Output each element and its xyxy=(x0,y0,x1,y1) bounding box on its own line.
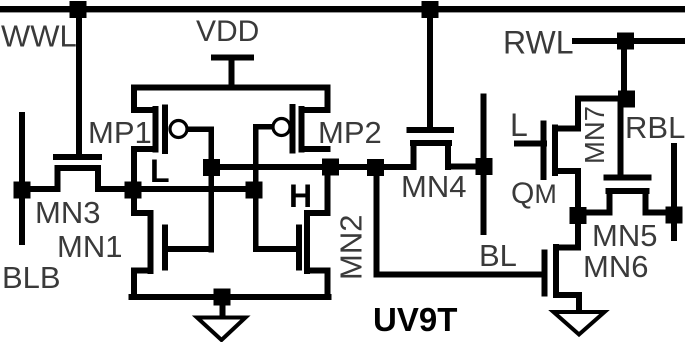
MN6 drain jog xyxy=(553,245,581,251)
ground stub (latch) xyxy=(220,297,226,318)
transistor MP1 xyxy=(131,85,187,193)
MN5 channel bar xyxy=(606,188,650,194)
junction ground row xyxy=(214,289,231,306)
junction node L / MP2 gate xyxy=(246,182,263,199)
MN6 gate bar xyxy=(542,250,548,297)
MN2 source jog xyxy=(304,268,331,274)
MP2 source vertical xyxy=(325,85,331,114)
MN5 gate bar xyxy=(604,175,652,181)
svg-text:QM: QM xyxy=(511,177,557,210)
MN4 channel bar xyxy=(410,140,452,146)
MN7 drain vertical up xyxy=(575,96,581,129)
svg-text:L: L xyxy=(510,107,528,143)
svg-text:MP2: MP2 xyxy=(318,115,382,150)
MN1 drain jog xyxy=(131,210,154,216)
svg-text:L: L xyxy=(150,153,170,189)
MN3 drain stub xyxy=(95,165,101,192)
MN4 drain arm to BL xyxy=(445,164,484,170)
MN7 channel bar xyxy=(552,125,558,177)
svg-text:MN1: MN1 xyxy=(57,229,122,264)
junction RBL / MN5 xyxy=(666,207,683,224)
MP2 channel bar xyxy=(299,106,305,153)
wire RBL bitline xyxy=(671,143,677,241)
wire BL bitline xyxy=(481,94,487,236)
transistor MN1 xyxy=(131,186,212,300)
MN6 channel bar xyxy=(553,244,559,294)
MN5 source stub xyxy=(607,188,613,216)
MP1 drain jog xyxy=(131,146,159,152)
svg-text:WWL: WWL xyxy=(1,19,77,54)
svg-text:VDD: VDD xyxy=(196,15,259,48)
MP1 channel bar xyxy=(153,106,159,153)
terminal node L to MN7 gate xyxy=(514,141,547,147)
svg-text:MN7: MN7 xyxy=(579,106,610,164)
wire WWL top rail xyxy=(0,6,685,12)
MN4 source arm to node H xyxy=(376,164,414,170)
ground symbol (MN6) xyxy=(554,312,605,335)
MN1 drain vertical xyxy=(131,186,137,216)
svg-text:BLB: BLB xyxy=(2,260,61,295)
MN2 source vertical xyxy=(325,268,331,301)
MN4 source stub xyxy=(411,140,417,170)
MN7 drain horizontal to RWL junction xyxy=(575,96,627,102)
MN3 channel bar xyxy=(55,165,101,171)
MP1 source vertical xyxy=(131,85,137,114)
svg-text:MN4: MN4 xyxy=(401,169,466,204)
wire MP2 gate to node L (horizontal) xyxy=(253,124,273,130)
wire RWL drop xyxy=(621,41,627,99)
wire node H drop to MN6 gate (vertical) xyxy=(374,164,380,278)
MN7 gate bar xyxy=(541,121,547,181)
MN4 drain stub xyxy=(445,140,451,170)
MP2 gate bar xyxy=(290,104,296,154)
power VDD stub xyxy=(229,57,235,88)
MN4 gate drop from WWL rail xyxy=(427,9,433,130)
MN6 drain vertical xyxy=(575,215,581,251)
wire MP2 gate drop to L row and MN2 gate xyxy=(253,124,259,252)
wire MN3 source arm to BLB xyxy=(22,186,60,192)
MN2 drain jog xyxy=(304,210,331,216)
MN5 source arm xyxy=(578,210,610,216)
MN3 source stub xyxy=(55,165,61,192)
svg-text:MN3: MN3 xyxy=(35,195,100,230)
transistor MP2 xyxy=(273,85,331,154)
transistor MN7 xyxy=(541,96,627,216)
junction MP1 drain / node L xyxy=(125,182,142,199)
wire latch VDD rail xyxy=(131,85,331,91)
svg-text:MN6: MN6 xyxy=(583,249,648,284)
MP2 drain jog xyxy=(299,146,331,152)
MN1 gate bar xyxy=(162,225,168,271)
ground symbol (latch) xyxy=(197,318,246,341)
MN3 gate bar xyxy=(53,154,102,160)
MN2 drain vertical xyxy=(325,164,331,216)
junction node H / MP2 drain xyxy=(322,159,339,176)
MP1 gate bubble xyxy=(170,121,187,138)
junction QM node / MN5-MN6-MN7 xyxy=(570,207,587,224)
junction BLB / MN3 xyxy=(14,182,31,199)
MN1 channel bar xyxy=(148,210,154,274)
junction BL / MN4 xyxy=(476,158,493,175)
svg-text:BL: BL xyxy=(479,238,517,273)
MN6 source jog xyxy=(553,292,582,298)
transistor MN5 xyxy=(578,99,674,216)
svg-text:RWL: RWL xyxy=(503,25,574,61)
wire node H row xyxy=(211,164,379,170)
junction WWL rail / MN3 gate drop xyxy=(70,1,87,18)
MN2 channel bar xyxy=(304,210,310,274)
wire MP1 gate drop to H row and MN1 gate xyxy=(209,127,215,253)
junction RWL / drop xyxy=(617,33,634,50)
MN1 source jog xyxy=(131,268,154,274)
power VDD symbol bar xyxy=(211,55,254,61)
MP1 drain vertical xyxy=(131,146,137,192)
wire WWL drop to MN3 gate xyxy=(76,9,82,160)
svg-text:MN5: MN5 xyxy=(592,218,657,253)
wire RWL xyxy=(572,38,685,44)
transistor MN3 xyxy=(53,154,102,192)
wire BLB bitline xyxy=(19,112,25,245)
svg-text:H: H xyxy=(289,178,312,214)
junction RWL drop / MN5 gate / MN7 drain xyxy=(618,91,635,108)
wire node L row xyxy=(95,186,257,192)
MN1 source vertical xyxy=(131,268,137,301)
MN1 gate wire to node H drop xyxy=(165,246,212,252)
MN5 drain stub xyxy=(643,188,649,216)
MN6 source vertical xyxy=(576,292,582,314)
transistor MN4 xyxy=(376,9,485,170)
transistor MN2 xyxy=(256,164,331,300)
MN5 gate drop from RWL xyxy=(618,99,624,176)
MP2 gate bubble xyxy=(273,119,290,136)
MN2 gate wire to node L drop xyxy=(256,246,300,252)
junction node H / MP1 gate xyxy=(203,159,220,176)
MN7 drain jog xyxy=(552,126,581,132)
svg-text:UV9T: UV9T xyxy=(373,301,457,338)
wire latch ground row xyxy=(129,294,332,300)
MN7 source jog xyxy=(552,168,581,174)
svg-text:RBL: RBL xyxy=(625,110,685,145)
svg-text:MP1: MP1 xyxy=(88,115,152,150)
wire node H to MN6 gate (horizontal) xyxy=(374,272,544,278)
MN5 drain arm to RBL xyxy=(646,210,675,216)
MN7 source vertical to QM xyxy=(575,168,581,216)
MP1 gate bar xyxy=(162,105,168,155)
transistor MN6 xyxy=(542,215,583,314)
MN2 gate bar xyxy=(296,225,302,271)
MN4 gate bar xyxy=(407,127,455,133)
MP2 source jog xyxy=(299,107,331,113)
junction node H / MN4 arm xyxy=(367,159,384,176)
svg-text:MN2: MN2 xyxy=(334,215,369,280)
junction WWL rail / MN4 gate drop xyxy=(422,1,439,18)
wire MP1 gate to node H (horizontal) xyxy=(187,127,215,133)
MP1 source jog xyxy=(131,107,159,113)
